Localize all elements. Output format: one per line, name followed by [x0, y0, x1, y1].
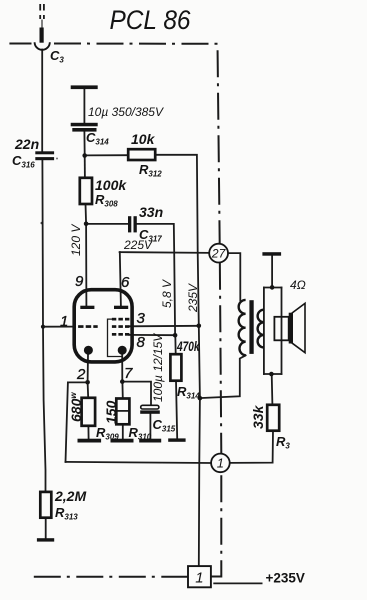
svg-text:100k: 100k	[95, 177, 127, 193]
wire: junction to R308 top	[84, 156, 86, 179]
wire: speaker branch right side	[281, 288, 283, 375]
capacitor C316	[35, 151, 54, 154]
resistor R312	[128, 149, 155, 160]
node: primary return / 235V rail	[198, 396, 203, 401]
wire: terminal 27 to transformer primary	[228, 253, 240, 300]
wire: pin 7 cathode lead	[121, 355, 123, 382]
speaker magnet bar	[289, 313, 293, 344]
svg-text:1: 1	[195, 569, 203, 586]
wire: C314 to main junction	[83, 131, 85, 155]
triode grid (pin 1)	[78, 325, 83, 328]
wire: R310 to ground	[122, 424, 124, 439]
transformer core	[249, 300, 253, 354]
wire: R313 to ground	[45, 518, 47, 540]
node: pin3 / 235V rail	[197, 324, 202, 329]
svg-text:225V: 225V	[123, 238, 153, 252]
wire: chassis boundary top left segment	[9, 43, 31, 45]
pentode cathode (pin 7)	[118, 346, 127, 355]
svg-text:470k: 470k	[176, 338, 200, 354]
wire: pin 3 lead to 235V rail	[129, 325, 199, 328]
svg-text:8: 8	[137, 334, 146, 351]
svg-text:27: 27	[211, 246, 227, 260]
resistor R314	[170, 354, 181, 381]
node: secondary top tap	[270, 285, 275, 290]
wire: R308 bottom to anode node	[85, 204, 88, 224]
speckles	[41, 222, 44, 225]
svg-text:33k: 33k	[250, 404, 266, 429]
wire: secondary bottom bar	[264, 373, 282, 375]
wire: chassis boundary bottom segment	[34, 576, 188, 578]
svg-text:10k: 10k	[131, 131, 156, 147]
wire: secondary tap down to R3	[271, 374, 274, 405]
pentode grid g2 row (pin 3)	[112, 325, 116, 328]
svg-text:10µ 350/385V: 10µ 350/385V	[88, 105, 164, 119]
wire: +235V lead	[214, 582, 261, 584]
triode anode (pin 9)	[80, 306, 94, 309]
svg-text:7: 7	[124, 365, 133, 382]
capacitor C3 cup	[35, 42, 50, 50]
svg-text:2,2M: 2,2M	[54, 488, 86, 504]
wire: C315 to ground	[149, 414, 151, 440]
svg-text:5,8 V: 5,8 V	[160, 279, 174, 308]
node: pin8 / R314	[173, 333, 178, 338]
resistor R310	[116, 399, 129, 425]
svg-text:100µ 12/15V: 100µ 12/15V	[151, 333, 165, 402]
wire: pin2 node to R309	[87, 382, 90, 398]
wire: pin7 node right to C315 branch	[122, 382, 151, 406]
speaker horn	[292, 303, 305, 352]
wire: grid junction down to R313	[43, 327, 46, 492]
resistor R308	[80, 178, 92, 204]
svg-text:22n: 22n	[14, 136, 39, 152]
wire: input line C3 to C316	[41, 50, 43, 152]
resistor R309	[82, 398, 96, 426]
wire: R312 right to 235V rail, rail down to box 1	[155, 155, 200, 567]
svg-text:150: 150	[103, 400, 119, 424]
wire: pin 8 lead to junction	[129, 334, 175, 336]
wire: anode node down to tube pin 9	[85, 224, 87, 306]
svg-text:9: 9	[75, 273, 84, 290]
wire: left bus down	[66, 382, 68, 462]
svg-text:1: 1	[60, 313, 68, 330]
capacitor C314	[71, 123, 98, 127]
svg-text:+235V: +235V	[266, 571, 305, 586]
wire: anode node to C317 left plate	[86, 223, 128, 225]
wire: pin 6 lead down into tube	[120, 252, 121, 306]
wire: pin7 node to R310	[121, 382, 123, 399]
wire: chassis boundary top and right side	[54, 44, 221, 577]
triode cathode (pin 2)	[84, 346, 93, 355]
svg-text:33n: 33n	[139, 204, 163, 220]
wire: transformer primary bottom lead to 235V rail	[200, 355, 246, 398]
ground under R310	[111, 439, 134, 443]
wire: pin 2 node left to bus	[68, 381, 88, 383]
wire: secondary left side	[263, 288, 265, 375]
ground under R313	[37, 538, 54, 541]
tube envelope	[74, 290, 132, 362]
svg-text:1: 1	[217, 456, 224, 471]
node: secondary bottom tap	[269, 372, 274, 377]
terminal 1 (circle)	[211, 454, 230, 473]
ground under R309	[78, 439, 102, 443]
wire: R314 bottom to ground bar	[176, 381, 177, 439]
resistor R3 (33k)	[267, 405, 279, 431]
node: input grid junction	[41, 325, 45, 329]
internal g3-cathode tie	[108, 319, 123, 356]
terminal 1 (box)	[188, 566, 211, 587]
wire: R3 bottom to terminal 1	[230, 431, 273, 463]
wire: bottom bus to terminal 1	[66, 462, 212, 463]
pentode anode (pin 6)	[114, 306, 128, 309]
transformer primary winding	[239, 300, 246, 355]
wire: C314 chassis bar to plates	[83, 89, 85, 124]
wire: secondary top bar	[264, 287, 282, 289]
wire: pin 2 cathode lead	[87, 355, 89, 383]
wire: shielded input pair above C3	[40, 4, 44, 28]
wire: 225V line pin6 to terminal 27	[120, 251, 210, 254]
svg-text:6: 6	[121, 274, 130, 291]
capacitor C315 electrolytic	[141, 405, 159, 409]
node: pin2 cathode	[85, 380, 90, 385]
pentode grid g1 row (pin 8)	[112, 333, 116, 336]
capacitor C317	[128, 216, 131, 232]
wire: secondary chassis stub	[271, 255, 273, 287]
capacitor C3 feedthrough bar	[40, 28, 44, 43]
transformer secondary winding	[258, 310, 264, 348]
svg-text:235V: 235V	[186, 283, 200, 313]
ground under R314	[168, 438, 185, 441]
pentode grid g3 row	[112, 318, 116, 321]
wire: C317 right to 5,8V line down to pin8 junction	[137, 224, 176, 335]
svg-text:PCL 86: PCL 86	[110, 5, 192, 35]
svg-text:120 V: 120 V	[69, 224, 83, 256]
wire: C316 to grid junction	[41, 160, 44, 327]
node: pin7 cathode	[120, 379, 125, 384]
svg-text:3: 3	[137, 310, 146, 327]
terminal 27	[209, 244, 228, 263]
ground under C315	[139, 439, 161, 443]
ground: chassis bar above C314	[71, 85, 98, 89]
wire: junction to R312 left	[85, 154, 129, 156]
ground: chassis bar above secondary	[262, 252, 281, 256]
speaker driver box	[274, 317, 288, 341]
svg-text:2: 2	[76, 366, 86, 383]
svg-text:4Ω: 4Ω	[290, 278, 306, 292]
wire: grid wire to tube pin 1	[43, 326, 73, 328]
wire: pin8 junction to R314	[174, 335, 176, 354]
node: C314/R312/R308	[82, 153, 87, 158]
node: triode anode / C317	[84, 222, 89, 227]
wire: R309 to ground	[87, 426, 89, 440]
resistor R313	[40, 492, 51, 518]
